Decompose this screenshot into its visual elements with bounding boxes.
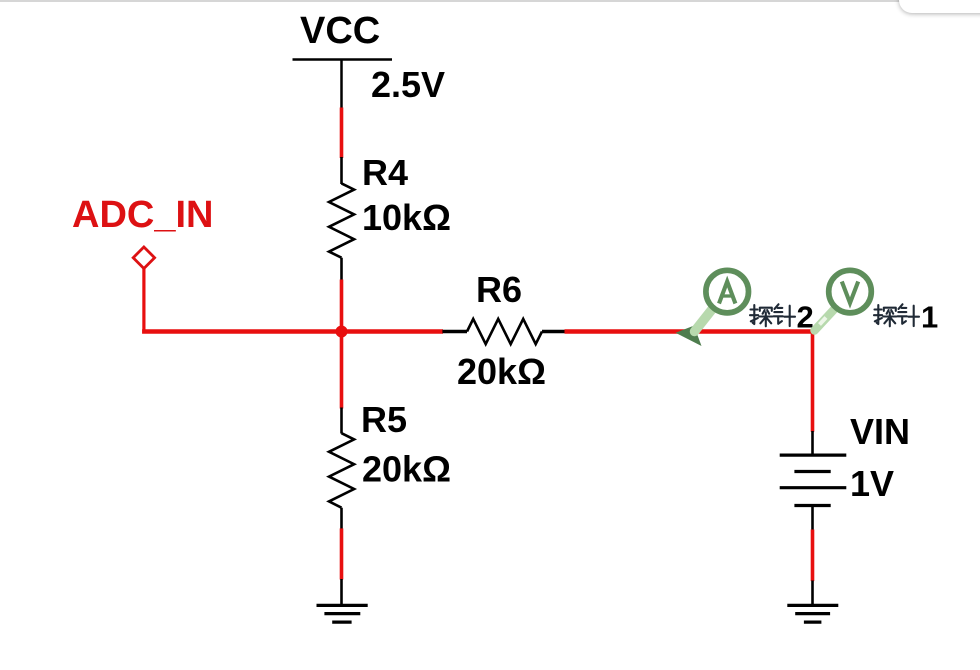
wire ADC_IN vertical xyxy=(142,269,145,334)
svg-text:1: 1 xyxy=(921,300,938,335)
svg-text:1V: 1V xyxy=(850,463,894,504)
wire corner to battery (red) xyxy=(811,329,815,431)
wire R6 to corner (red) xyxy=(565,329,813,334)
pin R4 top lead (black) xyxy=(340,157,343,184)
probe label 探针1 xyxy=(874,304,919,326)
pin ground right lead (black) xyxy=(811,581,814,606)
current probe A stem xyxy=(695,310,712,332)
wire R5 to ground (red) xyxy=(340,528,344,579)
power rail VCC xyxy=(293,58,393,61)
voltage probe V circle xyxy=(829,270,872,313)
probe label 探针2 xyxy=(750,304,795,326)
current probe A circle xyxy=(706,270,749,313)
top toolbar edge line xyxy=(0,0,920,2)
battery V1 plates xyxy=(780,455,847,505)
pin R5 top lead (black) xyxy=(340,408,343,434)
pin battery top lead (black) xyxy=(811,431,814,455)
svg-text:R6: R6 xyxy=(476,269,522,310)
ground right xyxy=(787,605,838,622)
svg-text:ADC_IN: ADC_IN xyxy=(72,194,213,236)
pin R5 bottom lead (black) xyxy=(340,508,343,530)
pin R4 bottom lead (black) xyxy=(340,258,343,281)
svg-text:R4: R4 xyxy=(362,152,408,193)
wire junction to R5 (red) xyxy=(340,332,344,409)
svg-text:R5: R5 xyxy=(361,399,407,440)
resistor R5 xyxy=(329,433,354,508)
wire battery to ground (red) xyxy=(811,530,815,582)
resistor R6 xyxy=(467,319,542,344)
ground left xyxy=(317,605,368,622)
node junction xyxy=(336,326,348,338)
resistor R4 xyxy=(329,183,354,257)
pin ground left lead (black) xyxy=(340,579,343,605)
pin R6 left lead (black) xyxy=(442,330,467,334)
svg-text:20kΩ: 20kΩ xyxy=(457,351,546,392)
pin VCC rail to wire (black) xyxy=(340,60,343,109)
voltage probe V letter xyxy=(842,282,858,304)
wire R4 to junction (red) xyxy=(340,280,344,332)
wire VCC to R4 (red segment) xyxy=(340,108,344,159)
svg-text:10kΩ: 10kΩ xyxy=(362,197,451,238)
current probe A arrowhead xyxy=(676,326,702,346)
svg-text:20kΩ: 20kΩ xyxy=(362,449,451,490)
voltage probe V stem highlight xyxy=(820,318,827,325)
svg-text:VCC: VCC xyxy=(300,10,380,52)
pin battery bottom lead (black) xyxy=(811,506,814,531)
svg-text:VIN: VIN xyxy=(850,411,910,452)
top-right floating panel xyxy=(899,0,980,13)
pin R6 right lead (black) xyxy=(542,330,565,334)
wire ADC_IN horizontal to junction xyxy=(142,329,341,334)
connector diamond ADC_IN xyxy=(133,247,154,269)
wire junction to R6 (red) xyxy=(342,329,444,334)
current probe A letter xyxy=(719,282,735,304)
voltage probe V stem xyxy=(815,310,835,331)
svg-text:2.5V: 2.5V xyxy=(371,64,445,105)
